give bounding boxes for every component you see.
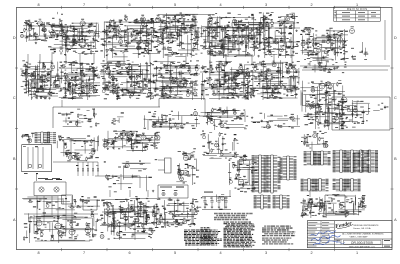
- svg-text:A: A: [394, 218, 397, 222]
- svg-text:R E V I S I O N S: R E V I S I O N S: [347, 7, 367, 11]
- svg-text:5: 5: [174, 251, 176, 255]
- svg-text:4: 4: [219, 251, 221, 255]
- svg-text:ALL-TUBE REVERB CHANNEL SCH: ALL-TUBE REVERB CHANNEL SCHEMATIC: [342, 233, 384, 236]
- svg-text:OR-000-57009: OR-000-57009: [351, 241, 373, 245]
- svg-text:3: 3: [265, 3, 267, 7]
- svg-text:B: B: [13, 157, 16, 161]
- svg-text:6: 6: [128, 251, 130, 255]
- svg-text:C: C: [394, 96, 397, 100]
- svg-text:6: 6: [128, 3, 130, 7]
- svg-text:B: B: [394, 157, 397, 161]
- svg-text:VIBRO - KING AMP: VIBRO - KING AMP: [349, 235, 368, 238]
- svg-text:4: 4: [219, 3, 221, 7]
- svg-text:5: 5: [174, 3, 176, 7]
- svg-text:8: 8: [37, 251, 39, 255]
- svg-text:Corona, CA. U.S.A.: Corona, CA. U.S.A.: [353, 227, 371, 230]
- svg-text:2: 2: [310, 3, 312, 7]
- svg-text:D: D: [13, 36, 16, 40]
- svg-text:7: 7: [83, 251, 85, 255]
- svg-text:VIBRO-KING AMP SHEET 1 of 1: VIBRO-KING AMP SHEET 1 of 1: [349, 245, 375, 248]
- svg-text:7: 7: [83, 3, 85, 7]
- svg-text:1: 1: [356, 3, 358, 7]
- svg-text:C: C: [13, 96, 16, 100]
- svg-text:8: 8: [37, 3, 39, 7]
- svg-text:2: 2: [310, 251, 312, 255]
- svg-text:3: 3: [265, 251, 267, 255]
- svg-text:A: A: [13, 218, 16, 222]
- svg-text:1: 1: [356, 251, 358, 255]
- svg-text:MUSICAL INSTRUMENTS: MUSICAL INSTRUMENTS: [354, 224, 379, 227]
- svg-text:D: D: [394, 36, 397, 40]
